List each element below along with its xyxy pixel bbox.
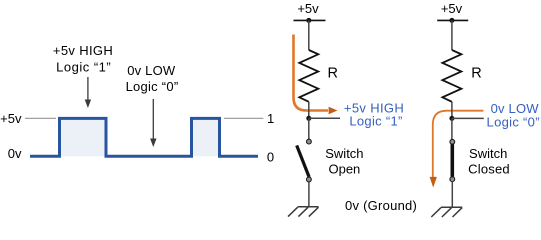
ground symbol — [431, 207, 462, 217]
orange current arrow (node to ground) — [433, 111, 484, 177]
rail junction dot — [306, 18, 311, 23]
node output wire — [309, 117, 340, 119]
node junction dot — [306, 116, 311, 121]
+5v rail — [294, 19, 326, 21]
waveform trace — [30, 118, 258, 156]
pulse 1 fill — [60, 118, 107, 156]
svg-text:Open: Open — [328, 162, 360, 177]
svg-text:1: 1 — [267, 111, 274, 126]
svg-text:Logic “0”: Logic “0” — [126, 79, 179, 94]
wire node to switch — [451, 118, 453, 139]
wire rail to resistor — [308, 20, 310, 50]
svg-text:Logic “1”: Logic “1” — [349, 114, 402, 129]
svg-text:0: 0 — [267, 150, 274, 165]
switch top terminal — [450, 139, 455, 144]
svg-text:+5v HIGH: +5v HIGH — [53, 43, 113, 58]
high reference line left — [25, 117, 56, 119]
svg-text:Logic “0”: Logic “0” — [487, 115, 540, 130]
rail junction dot — [449, 18, 454, 23]
svg-text:+5v: +5v — [441, 1, 463, 16]
+5v rail — [437, 19, 468, 21]
node output wire — [452, 117, 484, 119]
svg-text:0v: 0v — [8, 146, 22, 161]
svg-text:0v LOW: 0v LOW — [127, 63, 176, 78]
wire resistor to node — [308, 102, 310, 119]
switch lever (open) — [297, 145, 309, 177]
wire rail to resistor — [451, 20, 453, 50]
node junction dot — [449, 116, 454, 121]
switch top terminal — [307, 139, 312, 144]
ground symbol — [288, 207, 319, 217]
resistor R — [442, 50, 461, 102]
wire switch to ground — [308, 182, 310, 207]
wire switch to ground — [451, 182, 453, 208]
svg-text:+5v: +5v — [0, 111, 22, 126]
orange current arrow (pull-up to output) — [294, 35, 329, 111]
switch closed bar — [450, 144, 454, 177]
high reference line right — [224, 117, 263, 119]
svg-text:Switch: Switch — [325, 146, 363, 161]
svg-text:+5v: +5v — [297, 1, 319, 16]
svg-text:R: R — [471, 66, 481, 82]
resistor R — [299, 50, 318, 102]
wire resistor to node — [451, 102, 453, 119]
switch bottom terminal — [450, 177, 455, 182]
wire node to switch — [308, 118, 310, 139]
svg-text:0v (Ground): 0v (Ground) — [345, 198, 417, 213]
svg-text:Switch: Switch — [469, 146, 507, 161]
arrow to low level — [152, 99, 154, 141]
svg-text:Logic “1”: Logic “1” — [56, 59, 111, 74]
pulse 2 fill — [192, 118, 220, 156]
svg-text:R: R — [328, 66, 338, 82]
arrow to pulse 1 — [87, 77, 89, 102]
svg-text:Closed: Closed — [468, 162, 510, 177]
switch bottom terminal — [307, 177, 312, 182]
